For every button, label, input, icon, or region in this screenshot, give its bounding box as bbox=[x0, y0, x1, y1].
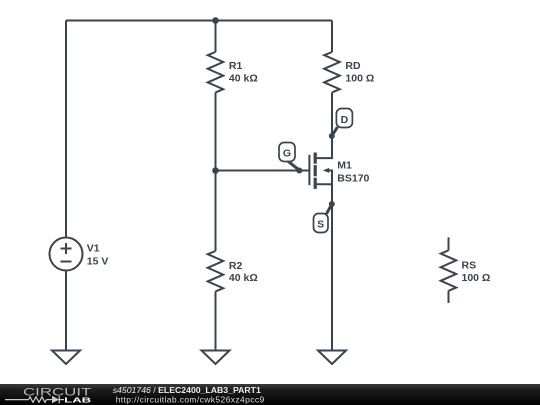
node D flag line bbox=[332, 127, 338, 136]
resistor R2 bbox=[208, 251, 224, 291]
M1 source lead bbox=[317, 184, 332, 204]
voltage source V1 bbox=[50, 238, 83, 271]
wire R1 bottom to junction bbox=[215, 92, 217, 170]
node S flag line bbox=[327, 204, 332, 214]
wire source node to ground bbox=[331, 204, 333, 351]
svg-text:R2: R2 bbox=[229, 260, 243, 272]
svg-text:BS170: BS170 bbox=[337, 172, 369, 184]
wire R2 bottom to ground bbox=[215, 291, 217, 350]
M1 drain lead bbox=[317, 136, 332, 158]
node S box bbox=[314, 214, 329, 233]
footer logo diode triangle bbox=[52, 396, 59, 403]
junction node middle (R1/R2/gate) bbox=[212, 167, 219, 174]
svg-text:RD: RD bbox=[345, 60, 361, 72]
transistor M1 (BS170 NMOS) bbox=[309, 136, 332, 204]
svg-text:LAB: LAB bbox=[64, 396, 92, 405]
resistor RS bbox=[441, 237, 457, 303]
svg-text:V1: V1 bbox=[87, 243, 100, 255]
wire top horizontal bbox=[66, 20, 332, 22]
svg-text:R1: R1 bbox=[229, 60, 243, 72]
resistor R1 bbox=[208, 52, 224, 92]
wire left vertical bbox=[65, 21, 67, 238]
M1 gate bar bbox=[308, 155, 310, 185]
svg-text:15 V: 15 V bbox=[87, 256, 109, 268]
svg-text:RS: RS bbox=[462, 260, 477, 272]
svg-text:40 kΩ: 40 kΩ bbox=[229, 272, 258, 284]
svg-text:40 kΩ: 40 kΩ bbox=[229, 72, 258, 84]
svg-text:S: S bbox=[317, 218, 324, 230]
node G box bbox=[279, 143, 295, 162]
wire V1 bottom to ground bbox=[65, 271, 67, 351]
node D box bbox=[336, 109, 352, 128]
ground symbol middle bbox=[202, 351, 230, 365]
svg-text:D: D bbox=[341, 114, 349, 126]
svg-text:100 Ω: 100 Ω bbox=[462, 272, 491, 284]
M1 channel dash top bbox=[314, 153, 317, 164]
wire RD bottom to drain node bbox=[331, 92, 333, 136]
M1 body connection bbox=[328, 171, 332, 185]
svg-text:100 Ω: 100 Ω bbox=[345, 73, 374, 85]
svg-text:G: G bbox=[283, 148, 291, 160]
wire R2 top lead bbox=[215, 171, 217, 252]
node G flag line bbox=[288, 161, 300, 170]
resistor RD bbox=[324, 52, 340, 92]
wire R1 top lead bbox=[215, 21, 217, 53]
ground symbol right bbox=[318, 351, 346, 365]
svg-text:M1: M1 bbox=[337, 160, 352, 172]
wire gate horizontal bbox=[216, 170, 309, 172]
node S dot bbox=[329, 201, 335, 207]
wire RD top lead bbox=[331, 21, 333, 53]
node D dot bbox=[329, 133, 335, 139]
svg-text:http://circuitlab.com/cwk526xz: http://circuitlab.com/cwk526xz4pcc9 bbox=[116, 395, 265, 405]
M1 body arrow head bbox=[323, 168, 329, 173]
M1 channel dash middle bbox=[314, 165, 317, 176]
footer logo wire+resistor+diode bbox=[5, 396, 64, 403]
footer bar bbox=[0, 384, 540, 405]
node G dot bbox=[296, 168, 302, 174]
ground symbol left bbox=[52, 351, 80, 365]
M1 channel dash bottom bbox=[314, 178, 317, 189]
junction node top (R1/top wire) bbox=[212, 17, 219, 24]
